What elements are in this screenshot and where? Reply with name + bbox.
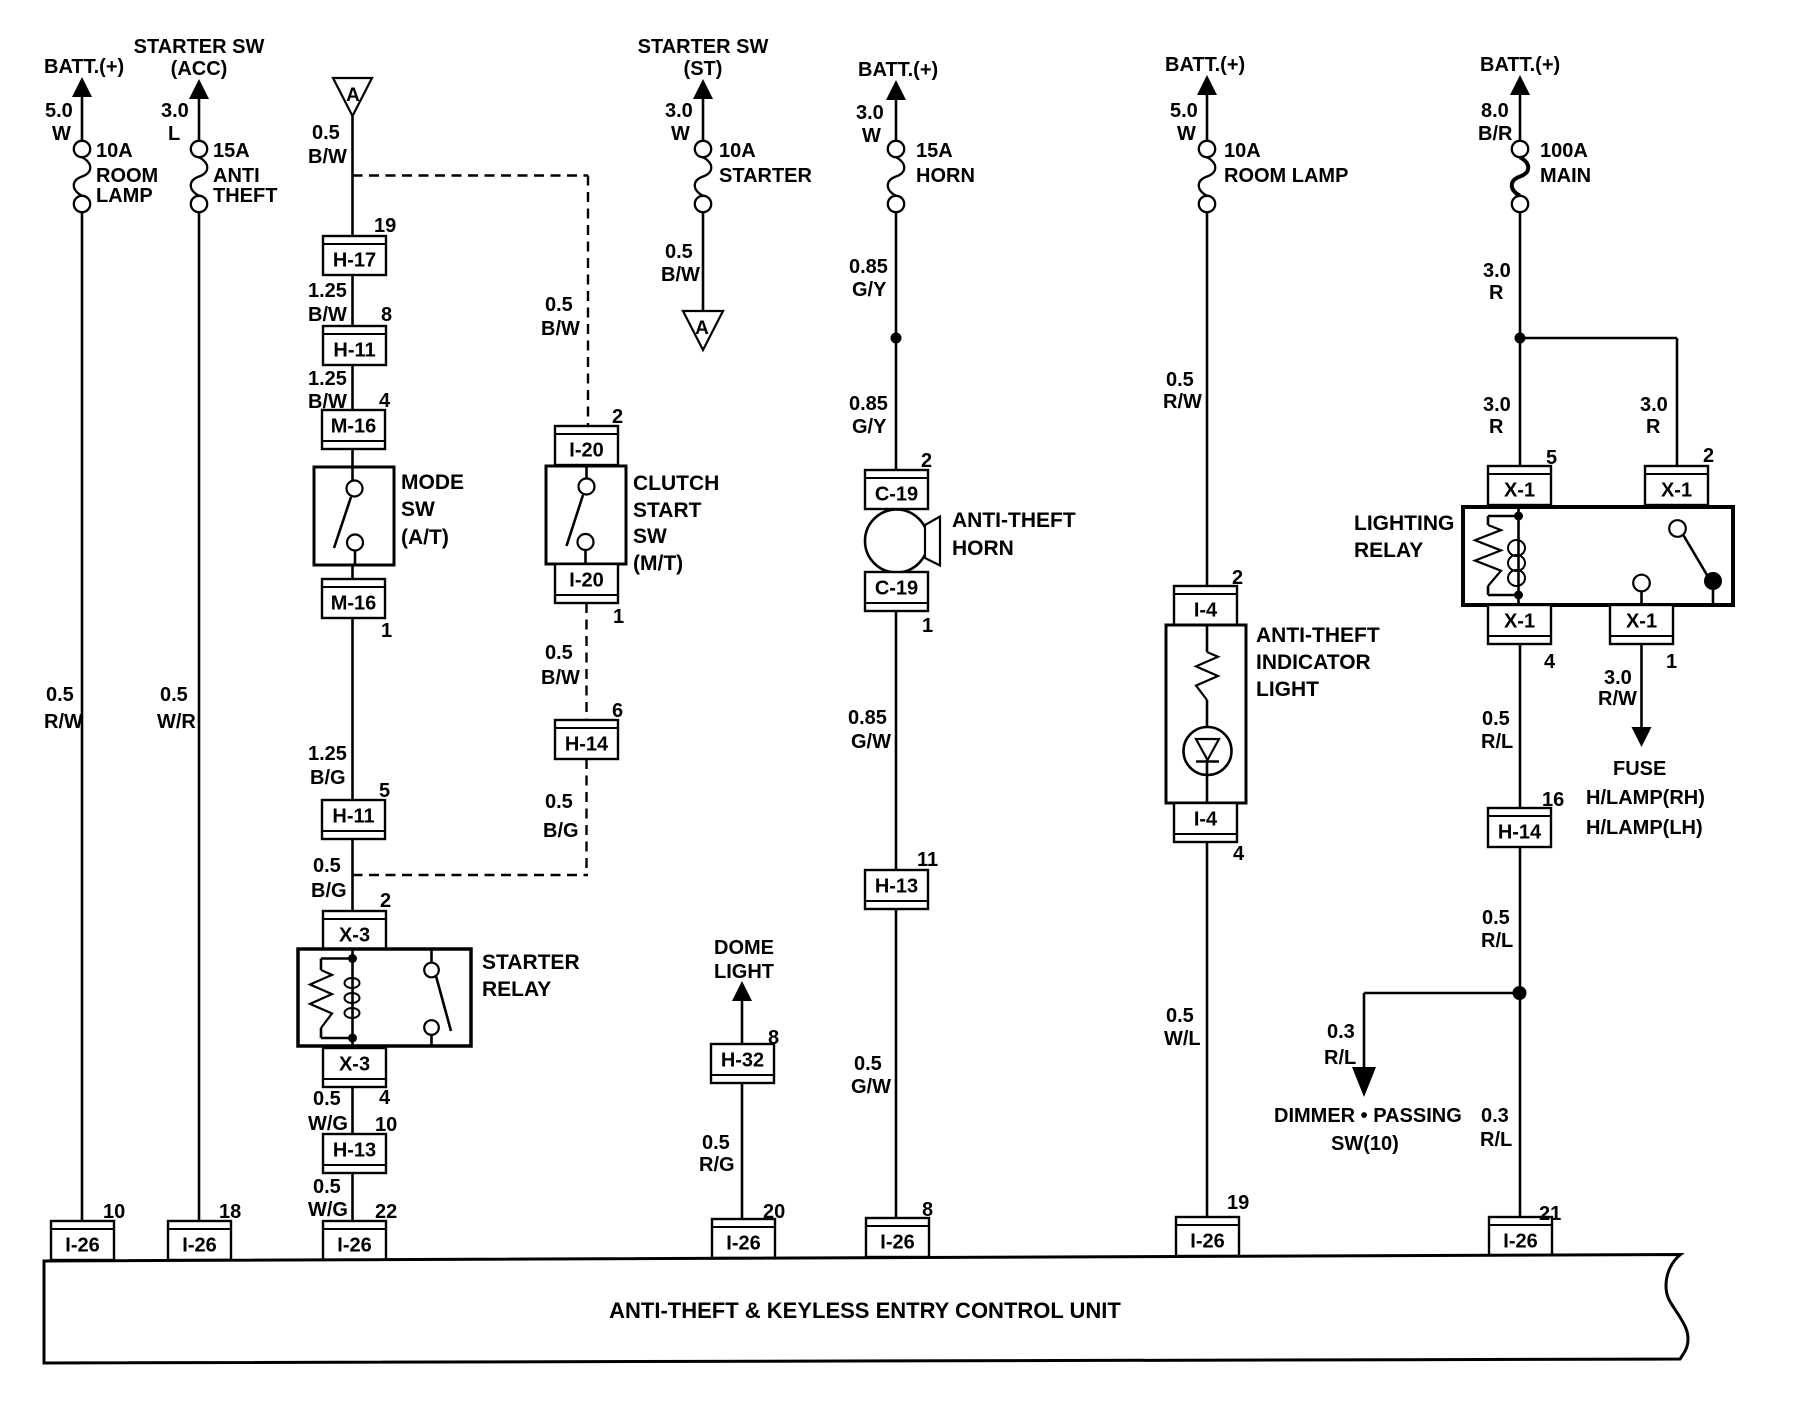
svg-text:2: 2 [612,406,623,428]
connector I-26 pin 18 [168,1201,241,1260]
svg-text:LAMP: LAMP [96,185,153,207]
net label DOME LIGHT [714,937,774,983]
svg-text:B/G: B/G [311,880,347,902]
svg-text:H-11: H-11 [332,806,374,828]
svg-text:BATT.(+): BATT.(+) [858,59,938,81]
net label BATT.(+) battery feed, column 1 [44,56,124,78]
svg-text:(ACC): (ACC) [171,58,228,80]
svg-text:MAIN: MAIN [1540,165,1591,187]
wire 0.5 G/W [851,908,896,1219]
svg-text:1: 1 [922,615,933,637]
connector I-26 pin 22 [323,1201,397,1260]
svg-text:1.25: 1.25 [308,368,347,390]
wire 1.25 B/G [308,618,353,801]
svg-text:H-14: H-14 [1498,822,1542,844]
svg-text:CLUTCH: CLUTCH [633,472,719,495]
svg-text:THEFT: THEFT [213,185,277,207]
anti-theft horn sounder [865,510,940,573]
svg-text:SW(10): SW(10) [1331,1133,1399,1155]
svg-text:2: 2 [1232,567,1243,589]
svg-text:21: 21 [1539,1203,1561,1225]
connector H-14 pin 6 [555,700,623,759]
connector H-32 pin 8 [711,1027,779,1083]
connector X-1 pin 4 [1488,605,1556,673]
svg-text:BATT.(+): BATT.(+) [44,56,124,78]
svg-text:LIGHT: LIGHT [1256,678,1319,701]
net label STARTER SW (ST) [638,36,769,80]
svg-text:ROOM: ROOM [96,165,158,187]
svg-text:B/W: B/W [541,667,580,689]
wire 0.85 G/W [848,611,896,871]
svg-text:H-32: H-32 [721,1050,764,1072]
svg-text:0.5: 0.5 [312,122,340,144]
svg-text:A: A [346,85,360,106]
svg-text:B/W: B/W [541,318,580,340]
connector M-16 pin 1 [322,579,392,642]
svg-text:5: 5 [379,780,390,802]
svg-text:10: 10 [103,1201,125,1223]
svg-text:SW: SW [401,498,435,521]
svg-text:11: 11 [917,849,938,871]
svg-text:1: 1 [613,606,624,628]
svg-text:B/R: B/R [1478,123,1513,145]
net label DIMMER PASSING SW(10) [1274,1105,1462,1155]
fuse F6 100A MAIN [1512,140,1591,212]
svg-text:B/G: B/G [310,767,346,789]
svg-text:B/W: B/W [308,146,347,168]
starter relay switch contacts [424,949,451,1046]
label ANTI-THEFT HORN [952,509,1076,560]
svg-text:RELAY: RELAY [482,978,551,1001]
connector H-17 pin 19 [323,215,396,275]
wire 3.0 R upper [1483,212,1520,339]
svg-text:I-26: I-26 [1503,1231,1537,1253]
lighting relay switch contacts [1633,520,1722,605]
svg-text:3.0: 3.0 [1483,394,1511,416]
net label BATT.(+) column 6 [858,59,938,81]
svg-text:R/L: R/L [1481,930,1513,952]
svg-text:I-26: I-26 [726,1233,760,1255]
svg-text:I-4: I-4 [1194,809,1218,831]
starter relay coil and resistor [310,949,360,1046]
svg-text:0.5: 0.5 [160,684,188,706]
svg-text:L: L [168,123,180,145]
svg-text:0.85: 0.85 [848,707,887,729]
svg-text:W: W [862,125,881,147]
svg-text:R: R [1489,282,1504,304]
node A triangle (from starter sw) [333,78,372,116]
branch wire to X-1 pin 2 [1520,338,1677,467]
fuse F3 10A STARTER [695,140,813,212]
svg-text:0.85: 0.85 [849,393,888,415]
wire 0.5 B/W col3 top [308,116,353,237]
svg-text:MODE: MODE [401,471,464,494]
svg-text:B/W: B/W [308,304,347,326]
connector I-26 pin 19 [1176,1192,1249,1256]
svg-text:8: 8 [381,304,392,326]
svg-text:10A: 10A [1224,140,1261,162]
svg-text:G/W: G/W [851,1076,891,1098]
svg-text:4: 4 [379,1087,391,1109]
svg-text:I-26: I-26 [65,1235,99,1257]
svg-text:ANTI-THEFT: ANTI-THEFT [952,509,1076,532]
fuse F1 10A ROOM LAMP [74,140,158,212]
svg-text:A: A [695,318,709,339]
svg-text:6: 6 [612,700,623,722]
svg-text:0.5: 0.5 [702,1132,730,1154]
wire 0.5 W/R column 2 [157,212,199,1223]
svg-text:(ST): (ST) [684,58,723,80]
net label STARTER SW (ACC) [134,36,265,80]
svg-text:3.0: 3.0 [1604,667,1632,689]
svg-text:0.5: 0.5 [313,1088,341,1110]
connector I-26 pin 10 [51,1201,125,1260]
svg-text:8: 8 [768,1027,779,1049]
svg-text:0.3: 0.3 [1327,1021,1355,1043]
wire 1.25 B/W segment 2 [308,365,353,413]
svg-text:1: 1 [381,620,392,642]
junction node col6 [891,333,902,344]
svg-text:100A: 100A [1540,140,1588,162]
connector M-16 pin 4 [322,390,391,449]
label CLUTCH START SW (M/T) [633,472,719,575]
svg-text:10A: 10A [96,140,133,162]
svg-text:2: 2 [1703,445,1714,467]
svg-text:ROOM LAMP: ROOM LAMP [1224,165,1348,187]
wire label 5.0 W col7 [1170,100,1198,145]
svg-text:RELAY: RELAY [1354,539,1423,562]
svg-text:HORN: HORN [952,537,1014,560]
dashed wire 0.5 B/W col4 lower [541,603,587,721]
svg-text:G/W: G/W [851,731,891,753]
svg-text:1.25: 1.25 [308,280,347,302]
dashed jumper wire top (A/T-M/T alt) [353,176,589,428]
svg-text:DOME: DOME [714,937,774,959]
svg-text:X-1: X-1 [1504,611,1535,633]
wire 0.5 R/L segment 1 [1481,644,1520,809]
svg-text:0.5: 0.5 [545,294,573,316]
wire 0.85 G/Y lower [849,338,896,471]
svg-text:X-1: X-1 [1626,611,1657,633]
svg-text:4: 4 [1544,651,1556,673]
mode switch SW1 MODE SW (A/T) box [314,449,394,580]
svg-text:0.85: 0.85 [849,256,888,278]
svg-text:W: W [1177,123,1196,145]
label STARTER RELAY [482,951,580,1001]
svg-text:3.0: 3.0 [856,102,884,124]
connector I-4 pin 2 [1174,567,1243,625]
svg-text:22: 22 [375,1201,397,1223]
svg-text:R/W: R/W [1598,688,1637,710]
wire 0.5 R/W col7 [1163,212,1207,588]
svg-text:0.5: 0.5 [46,684,74,706]
svg-text:H-17: H-17 [333,250,376,272]
svg-text:W: W [671,123,690,145]
svg-text:W/G: W/G [308,1113,348,1135]
fuse F4 15A HORN [888,140,975,212]
arrow to BATT.(+) column 7 [1197,75,1217,142]
connector X-3 pin 2 [323,890,391,950]
svg-text:X-1: X-1 [1504,480,1535,502]
wire 1.25 B/W segment 1 [308,275,353,327]
wire 0.5 R/L segment 2 [1481,847,1520,993]
svg-text:5.0: 5.0 [45,100,73,122]
lighting relay coil and resistor [1475,507,1525,605]
wire 0.3 R/L to I-26 [1480,993,1520,1218]
svg-text:X-1: X-1 [1661,480,1692,502]
node A triangle down [683,311,723,350]
connector I-20 pin 1 [555,564,624,628]
wire 0.5 W/L [1164,841,1207,1218]
wire 0.5 R/W column 1 [44,212,83,1223]
label ANTI-THEFT INDICATOR LIGHT [1256,624,1380,701]
svg-text:5.0: 5.0 [1170,100,1198,122]
svg-text:G/Y: G/Y [852,279,887,301]
arrow to BATT.(+) column 8 [1510,75,1530,142]
connector H-13 pin 10 [323,1114,397,1173]
svg-text:C-19: C-19 [875,578,918,600]
svg-text:18: 18 [219,1201,241,1223]
wire label 3.0 R right branch [1640,394,1668,438]
svg-text:I-26: I-26 [880,1232,914,1254]
connector H-11 pin 5 [322,780,390,839]
anti-theft & keyless entry control unit box [44,1255,1688,1364]
svg-text:C-19: C-19 [875,484,918,506]
svg-text:I-4: I-4 [1194,600,1218,622]
svg-text:0.5: 0.5 [313,1176,341,1198]
svg-text:8: 8 [922,1199,933,1221]
svg-text:M-16: M-16 [331,593,377,615]
svg-text:W: W [52,123,71,145]
svg-text:I-26: I-26 [337,1235,371,1257]
dashed wire 0.5 B/G col4 [543,759,587,876]
arrow to BATT.(+) column 6 [886,80,906,142]
svg-text:10A: 10A [719,140,756,162]
svg-text:2: 2 [380,890,391,912]
svg-text:I-20: I-20 [569,440,603,462]
svg-text:H/LAMP(RH): H/LAMP(RH) [1586,787,1705,809]
svg-text:0.5: 0.5 [545,642,573,664]
svg-text:HORN: HORN [916,165,975,187]
svg-text:0.5: 0.5 [854,1053,882,1075]
svg-text:R/L: R/L [1324,1047,1356,1069]
connector I-20 pin 2 [555,406,623,465]
svg-text:0.5: 0.5 [545,791,573,813]
svg-text:B/W: B/W [661,264,700,286]
svg-text:FUSE: FUSE [1613,758,1666,780]
wire 0.5 W/G segment 1 [308,1087,353,1135]
starter relay K1 box [298,949,471,1046]
wire label 3.0 W col5 [665,100,693,145]
svg-text:INDICATOR: INDICATOR [1256,651,1371,674]
svg-text:H-11: H-11 [333,340,375,362]
branch wire to dimmer switch [1324,993,1520,1097]
wire 0.5 W/G segment 2 [308,1172,353,1222]
connector I-26 pin 8 [866,1199,933,1257]
svg-text:3.0: 3.0 [665,100,693,122]
svg-text:8.0: 8.0 [1481,100,1509,122]
svg-text:19: 19 [1227,1192,1249,1214]
label MODE SW (A/T) [401,471,464,549]
arrow to BATT.(+) column 1 [72,77,92,142]
connector I-26 pin 20 [712,1201,785,1258]
svg-text:W/L: W/L [1164,1028,1201,1050]
svg-text:1.25: 1.25 [308,743,347,765]
svg-text:H-13: H-13 [333,1140,376,1162]
connector X-1 pin 5 [1488,447,1557,505]
svg-text:0.5: 0.5 [1166,1005,1194,1027]
lighting relay K2 box [1463,507,1733,605]
connector I-4 pin 4 [1174,803,1245,865]
arrow to STARTER SW (ST) [693,79,713,142]
svg-text:I-26: I-26 [182,1235,216,1257]
svg-text:STARTER: STARTER [719,165,813,187]
svg-text:0.5: 0.5 [1166,369,1194,391]
net label FUSE H/LAMP(RH) H/LAMP(LH) [1586,758,1705,839]
svg-text:3.0: 3.0 [161,100,189,122]
connector I-26 pin 21 [1489,1203,1561,1256]
fuse F5 10A ROOM LAMP [1199,140,1349,212]
connector H-11 pin 8 [323,304,392,365]
connector X-3 pin 4 [323,1048,391,1109]
label LIGHTING RELAY [1354,512,1454,562]
svg-text:W/G: W/G [308,1199,348,1221]
svg-text:H-14: H-14 [565,734,609,756]
svg-text:R/L: R/L [1480,1129,1512,1151]
svg-text:0.3: 0.3 [1481,1105,1509,1127]
svg-text:R/W: R/W [1163,391,1202,413]
connector C-19 pin 1 [865,572,933,637]
arrow to STARTER SW (ACC) [189,79,209,142]
svg-text:ANTI: ANTI [213,165,260,187]
junction node col8 [1515,333,1526,344]
junction node dimmer branch [1513,986,1527,1000]
dashed jumper wire bottom [353,874,589,876]
svg-text:R/L: R/L [1481,731,1513,753]
connector H-14 pin 16 [1488,789,1564,847]
anti-theft indicator light box [1166,625,1246,803]
svg-text:W/R: W/R [157,711,196,733]
svg-text:15A: 15A [213,140,250,162]
svg-text:4: 4 [1233,843,1245,865]
svg-text:LIGHTING: LIGHTING [1354,512,1454,535]
wire label 0.5 B/W col4 upper [541,294,580,340]
wire label 5.0 W [45,100,73,145]
svg-text:R: R [1646,416,1661,438]
svg-text:STARTER SW: STARTER SW [638,36,769,58]
svg-text:LIGHT: LIGHT [714,961,774,983]
svg-text:R/G: R/G [699,1154,735,1176]
connector X-1 pin 1 [1610,605,1677,673]
svg-text:5: 5 [1546,447,1557,469]
connector X-1 pin 2 [1645,445,1714,505]
svg-text:I-26: I-26 [1190,1231,1224,1253]
svg-text:ANTI-THEFT: ANTI-THEFT [1256,624,1380,647]
svg-text:10: 10 [375,1114,397,1136]
svg-text:X-3: X-3 [339,925,370,947]
svg-text:START: START [633,499,702,522]
svg-text:M-16: M-16 [331,416,377,438]
fuse F2 15A ANTI THEFT [191,140,278,212]
connector H-13 pin 11 [865,849,938,909]
svg-text:4: 4 [379,390,391,412]
svg-text:0.5: 0.5 [313,855,341,877]
svg-text:ANTI-THEFT & KEYLESS ENTRY CON: ANTI-THEFT & KEYLESS ENTRY CONTROL UNIT [609,1298,1121,1323]
svg-text:R: R [1489,416,1504,438]
svg-text:I-20: I-20 [569,570,603,592]
svg-text:0.5: 0.5 [665,241,693,263]
svg-text:STARTER: STARTER [482,951,580,974]
svg-text:16: 16 [1542,789,1564,811]
svg-text:DIMMER • PASSING: DIMMER • PASSING [1274,1105,1462,1127]
svg-text:1: 1 [1666,651,1677,673]
clutch start switch SW2 box [546,466,626,564]
wire label 8.0 B/R [1478,100,1513,145]
svg-text:19: 19 [374,215,396,237]
wire 0.5 B/G col3 [311,839,353,912]
svg-text:0.5: 0.5 [1482,907,1510,929]
svg-text:BATT.(+): BATT.(+) [1165,54,1245,76]
wire 0.5 R/G [699,1083,742,1220]
net label BATT.(+) column 7 [1165,54,1245,76]
svg-text:H-13: H-13 [875,876,918,898]
svg-text:15A: 15A [916,140,953,162]
svg-text:3.0: 3.0 [1483,260,1511,282]
svg-text:X-3: X-3 [339,1054,370,1076]
svg-text:0.5: 0.5 [1482,708,1510,730]
svg-text:2: 2 [921,450,932,472]
svg-text:STARTER SW: STARTER SW [134,36,265,58]
svg-text:20: 20 [763,1201,785,1223]
wire 3.0 R left branch [1483,338,1520,467]
net label BATT.(+) column 8 [1480,54,1560,76]
svg-text:3.0: 3.0 [1640,394,1668,416]
svg-text:(A/T): (A/T) [401,526,449,549]
svg-text:SW: SW [633,525,667,548]
svg-text:B/G: B/G [543,820,579,842]
wire 0.85 G/Y upper [849,212,896,339]
wire label 3.0 W col6 [856,102,884,147]
svg-text:(M/T): (M/T) [633,552,683,575]
connector C-19 pin 2 [865,450,932,509]
wire label 3.0 L [161,100,189,145]
svg-text:G/Y: G/Y [852,416,887,438]
svg-text:R/W: R/W [44,711,83,733]
svg-text:H/LAMP(LH): H/LAMP(LH) [1586,817,1703,839]
wire 3.0 R/W to fuse arrow [1598,644,1652,747]
svg-text:BATT.(+): BATT.(+) [1480,54,1560,76]
arrow to DOME LIGHT [732,981,752,1045]
wire 0.5 B/W col5 [661,212,703,312]
